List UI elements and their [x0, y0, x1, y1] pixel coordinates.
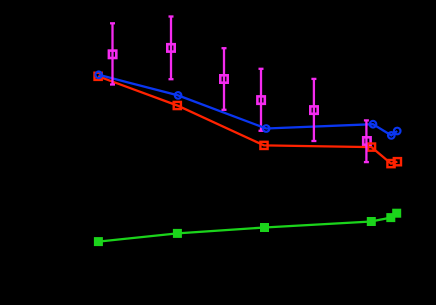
- blue marker circle point 2: [175, 92, 182, 99]
- magenta marker square point 2: [167, 44, 174, 51]
- magenta marker square point 4: [257, 96, 264, 103]
- blue marker circle point 3: [263, 125, 270, 132]
- blue marker circle point 1: [95, 72, 102, 79]
- magenta error bar 6: [364, 120, 369, 162]
- green marker square point 3: [260, 223, 269, 232]
- magenta error bar 5: [311, 79, 316, 141]
- blue series line: [99, 75, 398, 136]
- red marker square point 2: [174, 102, 181, 109]
- magenta marker square point 1: [109, 51, 116, 58]
- blue marker circle point 5: [388, 132, 395, 139]
- blue marker circle point 4: [370, 121, 377, 128]
- green marker square point 1: [94, 237, 103, 246]
- green marker square point 2: [173, 229, 182, 238]
- red series line: [98, 76, 397, 163]
- green marker square point 5: [386, 213, 395, 222]
- blue marker circle point 6: [394, 128, 401, 135]
- magenta error bar 2: [169, 17, 174, 80]
- red marker square point 6: [394, 158, 401, 165]
- red marker square point 3: [260, 142, 267, 149]
- green series line: [98, 213, 396, 241]
- magenta marker square point 5: [310, 106, 317, 113]
- magenta error bar 4 lower stem and bottom cap (under blue circle): [259, 122, 264, 131]
- green marker square point 4: [367, 217, 376, 226]
- magenta error bar 1: [110, 23, 115, 84]
- red marker square point 4: [368, 144, 375, 151]
- magenta error bar 4 upper stem and top cap: [259, 69, 264, 122]
- green marker square point 6: [392, 209, 401, 218]
- magenta marker square point 6: [363, 137, 370, 144]
- magenta marker square point 3: [220, 75, 227, 82]
- red marker square point 1: [95, 73, 102, 80]
- magenta error bar 3: [222, 48, 227, 110]
- red marker square point 5: [387, 160, 394, 167]
